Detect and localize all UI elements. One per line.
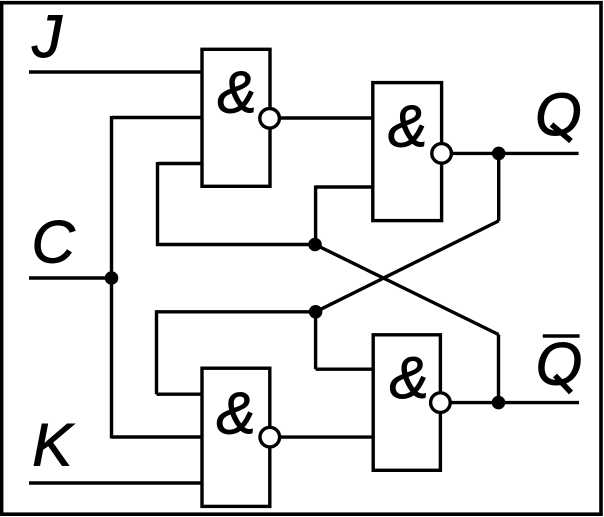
svg-text:&: & [389, 345, 428, 411]
svg-text:&: & [217, 60, 256, 126]
svg-text:O: O [535, 81, 582, 148]
svg-text:&: & [388, 94, 427, 160]
svg-text:K: K [32, 412, 75, 479]
svg-text:&: & [216, 380, 255, 446]
svg-text:C: C [32, 209, 76, 276]
svg-text:J: J [31, 3, 63, 70]
svg-text:O: O [535, 331, 582, 398]
